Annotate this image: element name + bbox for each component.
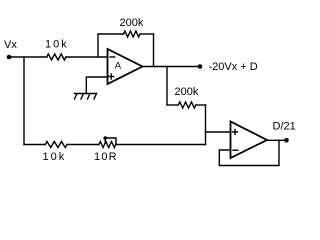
svg-text:10k: 10k: [43, 151, 67, 163]
svg-text:200k: 200k: [120, 17, 144, 29]
resistor R4 10k (bottom): [45, 142, 67, 148]
wire feedback tap up from inverting input: [97, 34, 99, 57]
minus sign U1: [110, 56, 115, 58]
wire U2 output: [267, 139, 287, 141]
wire Vx to R1: [9, 56, 47, 58]
svg-text:D/21: D/21: [273, 121, 296, 133]
wire junction down: [205, 105, 207, 145]
op-amp U2: [231, 122, 268, 159]
svg-text:200k: 200k: [175, 86, 199, 98]
wire bottom from branch: [24, 144, 45, 146]
resistor R1 10k (top): [47, 54, 66, 60]
node -20Vx + D: [198, 64, 203, 69]
wire U2 inverting input feedback: [219, 140, 279, 165]
svg-text:10k: 10k: [45, 39, 69, 51]
wire R5 to junction: [116, 144, 206, 146]
plus sign U2: [233, 131, 238, 133]
resistor R3 200k (middle): [178, 102, 196, 108]
node D/21: [284, 138, 289, 143]
wiper tap R5: [105, 138, 116, 145]
wire non-inverting input to ground: [86, 77, 107, 94]
ground: [75, 93, 97, 95]
svg-text:A: A: [115, 61, 122, 72]
wire R1 to op-amp U1 inverting input: [66, 56, 108, 58]
wire R3 to junction: [196, 104, 206, 106]
svg-text:Vx: Vx: [4, 39, 17, 51]
plus sign U1: [109, 76, 114, 78]
wire branch down from output: [166, 67, 168, 106]
resistor R5 10R trimmer: [99, 142, 116, 148]
wire to R3: [167, 104, 178, 106]
op-amp U1: [108, 49, 143, 84]
wire junction to U2 non-inverting input: [206, 131, 231, 133]
svg-text:-20Vx + D: -20Vx + D: [209, 61, 258, 73]
wire between R4 and R5: [67, 144, 99, 146]
node Vx: [7, 55, 12, 60]
svg-text:10R: 10R: [94, 151, 118, 163]
resistor R2 200k (feedback): [124, 31, 141, 37]
wire branch Vx down: [23, 57, 25, 145]
wire feedback down to output: [153, 34, 155, 67]
minus sign U2: [233, 149, 238, 151]
wire feedback top left segment: [98, 33, 124, 35]
wire U1 output: [143, 66, 201, 68]
wire feedback top right segment: [140, 33, 154, 35]
